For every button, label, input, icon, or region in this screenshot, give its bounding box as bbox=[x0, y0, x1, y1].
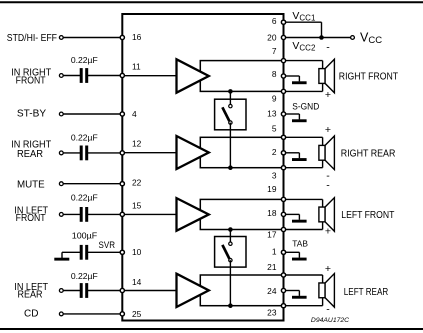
pin 14 bbox=[120, 288, 124, 292]
switch SW2 top contact bbox=[229, 242, 232, 245]
svg-text:REAR: REAR bbox=[17, 290, 42, 301]
speaker LEFT REAR polarity - bottom bbox=[326, 304, 330, 316]
wire PW1 to switch SW1 bbox=[229, 91, 231, 106]
svg-text:+: + bbox=[325, 124, 331, 136]
pin 16 bbox=[120, 35, 124, 39]
border frame top line bbox=[0, 1, 423, 3]
speaker LEFT FRONT bbox=[319, 198, 335, 232]
op-amp A1 triangle bbox=[177, 59, 209, 92]
node VCC junction dot bbox=[319, 35, 324, 40]
wire IN LEFT REAR terminal to C4 bbox=[61, 290, 81, 292]
ground at pin 24 bbox=[284, 291, 307, 299]
pin 14 number bbox=[132, 277, 142, 287]
wire ground to C5 bbox=[62, 251, 81, 253]
speaker RIGHT FRONT bbox=[319, 59, 335, 93]
pin 10 bbox=[120, 250, 124, 254]
svg-text:+: + bbox=[325, 263, 331, 275]
speaker LEFT REAR bbox=[319, 274, 335, 308]
terminal IN LEFT FRONT bbox=[59, 213, 63, 217]
speaker RIGHT REAR bbox=[319, 136, 335, 170]
svg-text:+: + bbox=[325, 89, 331, 101]
pin 8 number bbox=[272, 69, 277, 79]
pin 7 number bbox=[272, 46, 277, 56]
label VCC2 bbox=[292, 40, 316, 53]
switch SW2 lever bbox=[222, 245, 229, 259]
power stage box PW4 bbox=[200, 275, 283, 306]
pin 20 number bbox=[267, 32, 277, 42]
node junction dot on PW1 output bbox=[228, 89, 233, 94]
capacitor C2 0.22uF plates bbox=[80, 146, 89, 161]
pin 25 bbox=[120, 312, 124, 316]
wire pin 20 VCC2 to VCC terminal bbox=[284, 37, 353, 39]
speaker RIGHT FRONT polarity + bottom bbox=[325, 89, 331, 101]
label IN LEFT REAR bbox=[14, 282, 48, 301]
svg-text:0.22µF: 0.22µF bbox=[71, 193, 98, 203]
switch SW1 bottom contact bbox=[229, 121, 232, 124]
pin 6 bbox=[281, 20, 285, 24]
svg-text:0.22µF: 0.22µF bbox=[71, 133, 98, 143]
pin 1 bbox=[281, 250, 285, 254]
ground at pin 2 bbox=[284, 153, 307, 161]
border frame bottom line bbox=[0, 328, 423, 330]
speaker RIGHT REAR polarity + top bbox=[325, 124, 331, 136]
node junction dot on PW4 output bbox=[228, 303, 233, 308]
pin 16 number bbox=[132, 32, 142, 42]
svg-text:8: 8 bbox=[272, 69, 277, 79]
svg-text:14: 14 bbox=[132, 277, 142, 287]
svg-text:ST-BY: ST-BY bbox=[17, 108, 47, 119]
pin 24 number bbox=[267, 286, 277, 296]
label VCC1 bbox=[292, 10, 316, 23]
capacitor C3 0.22uF plates bbox=[80, 207, 89, 222]
pin 17 bbox=[281, 227, 285, 231]
label IN LEFT FRONT bbox=[14, 205, 48, 224]
pin 19 bbox=[281, 197, 285, 201]
pin 24 bbox=[281, 288, 285, 292]
pin 9 number bbox=[272, 93, 277, 103]
power stage box PW2 bbox=[200, 137, 283, 167]
wire C2 to pin 12 bbox=[86, 152, 122, 154]
pin 19 number bbox=[267, 184, 277, 194]
wire pin 12 to op-amp A2 input bbox=[122, 152, 176, 154]
svg-text:18: 18 bbox=[267, 208, 277, 218]
svg-text:23: 23 bbox=[267, 308, 277, 318]
pin 18 bbox=[281, 212, 285, 216]
wire C4 to pin 14 bbox=[86, 290, 122, 292]
svg-text:3: 3 bbox=[272, 171, 277, 181]
node junction dot on PW3 output bbox=[228, 227, 233, 232]
svg-text:17: 17 bbox=[267, 229, 277, 239]
switch SW2 bottom contact bbox=[229, 259, 232, 262]
svg-text:REAR: REAR bbox=[17, 149, 43, 160]
pin 9 bbox=[281, 89, 285, 93]
pin 21 bbox=[281, 273, 285, 277]
power stage box PW3 bbox=[200, 199, 283, 229]
svg-text:10: 10 bbox=[132, 247, 142, 257]
capacitor C3 value 0.22µF bbox=[71, 193, 98, 203]
wire C3 to pin 15 bbox=[86, 213, 122, 215]
label TAB bbox=[292, 238, 308, 248]
pin 4 bbox=[120, 112, 124, 116]
ground SVR bar bbox=[54, 258, 69, 261]
svg-text:16: 16 bbox=[132, 32, 142, 42]
ground at pin 8 bbox=[284, 76, 307, 84]
label speaker LEFT FRONT bbox=[341, 210, 394, 221]
wire STD/HI-EFF to pin 16 bbox=[61, 37, 122, 39]
label MUTE bbox=[17, 179, 45, 190]
svg-text:2: 2 bbox=[272, 147, 277, 157]
wire PW3 to switch SW2 bbox=[229, 230, 231, 244]
switch SW1 box bbox=[215, 99, 246, 130]
pin 3 bbox=[281, 166, 285, 170]
label ST-BY bbox=[17, 108, 47, 119]
node junction dot on PW2 output bbox=[228, 165, 233, 170]
pin 2 number bbox=[272, 147, 277, 157]
wire SW1 to PW2 output node bbox=[229, 123, 231, 168]
pin 15 bbox=[120, 212, 124, 216]
pin 1 number bbox=[272, 246, 277, 256]
svg-text:0.22µF: 0.22µF bbox=[71, 55, 98, 65]
pin 23 number bbox=[267, 308, 277, 318]
pin 13 bbox=[281, 112, 285, 116]
terminal MUTE bbox=[59, 182, 63, 186]
capacitor C2 value 0.22µF bbox=[71, 133, 98, 143]
svg-text:-: - bbox=[326, 304, 330, 316]
ground TAB at pin 1 bbox=[284, 252, 307, 260]
switch SW1 lever bbox=[222, 107, 229, 121]
power stage box PW1 bbox=[200, 61, 283, 92]
wire pin 11 to op-amp A1 input bbox=[122, 75, 176, 77]
terminal ST-BY bbox=[59, 112, 63, 116]
label speaker LEFT REAR bbox=[344, 287, 388, 298]
wire SW2 to PW4 output node bbox=[229, 260, 231, 306]
label VCC bbox=[360, 31, 382, 47]
pin 6 number bbox=[272, 16, 277, 26]
terminal IN RIGHT REAR bbox=[59, 151, 63, 155]
capacitor C5 100uF plates bbox=[80, 245, 89, 260]
wire pin to speaker LEFT FRONT top bbox=[284, 199, 323, 207]
wire pin to speaker RIGHT FRONT bottom bbox=[284, 83, 323, 91]
svg-text:22: 22 bbox=[132, 177, 142, 187]
label D94AU172C bbox=[311, 317, 349, 324]
svg-text:+: + bbox=[325, 226, 331, 238]
wire pin to speaker LEFT REAR top bbox=[284, 275, 323, 283]
svg-text:CD: CD bbox=[24, 309, 38, 320]
svg-text:4: 4 bbox=[132, 109, 137, 119]
speaker LEFT FRONT polarity + bottom bbox=[325, 226, 331, 238]
op-amp A2 triangle bbox=[177, 136, 209, 169]
IC block U1 outline bbox=[122, 14, 283, 321]
pin 12 number bbox=[132, 139, 142, 149]
svg-text:11: 11 bbox=[132, 62, 141, 72]
svg-text:0.22µF: 0.22µF bbox=[71, 271, 98, 281]
svg-text:21: 21 bbox=[267, 262, 277, 272]
svg-text:RIGHT FRONT: RIGHT FRONT bbox=[339, 72, 398, 83]
label speaker RIGHT FRONT bbox=[339, 72, 398, 83]
pin 22 bbox=[120, 182, 124, 186]
pin 8 bbox=[281, 74, 285, 78]
pin 5 bbox=[281, 135, 285, 139]
pin 10 number bbox=[132, 247, 142, 257]
svg-text:LEFT REAR: LEFT REAR bbox=[344, 287, 388, 298]
op-amp A3 triangle bbox=[177, 198, 209, 231]
svg-text:13: 13 bbox=[267, 109, 277, 119]
svg-text:SVR: SVR bbox=[99, 240, 116, 251]
svg-text:1: 1 bbox=[272, 246, 277, 256]
wire C5 to pin 10 bbox=[86, 251, 122, 253]
svg-text:25: 25 bbox=[132, 309, 142, 319]
wire pin 6 VCC1 bbox=[284, 22, 322, 37]
svg-text:100µF: 100µF bbox=[72, 231, 98, 241]
capacitor C4 value 0.22µF bbox=[71, 271, 98, 281]
label speaker RIGHT REAR bbox=[341, 149, 396, 160]
speaker LEFT FRONT polarity - top bbox=[326, 180, 330, 192]
wire ST-BY to pin 4 bbox=[61, 113, 122, 115]
svg-text:19: 19 bbox=[267, 184, 277, 194]
svg-text:6: 6 bbox=[272, 16, 277, 26]
wire pin to speaker RIGHT REAR bottom bbox=[284, 160, 323, 168]
svg-text:-: - bbox=[326, 42, 330, 54]
ground SVR drop bbox=[61, 252, 63, 258]
terminal IN LEFT REAR bbox=[59, 289, 63, 293]
capacitor C5 value 100µF bbox=[72, 231, 98, 241]
pin 5 number bbox=[272, 124, 277, 134]
wire pin to speaker RIGHT FRONT top bbox=[284, 61, 323, 69]
wire pin to speaker RIGHT REAR top bbox=[284, 137, 323, 145]
pin 11 bbox=[120, 73, 124, 77]
capacitor C1 0.22uF plates bbox=[80, 68, 89, 83]
pin 25 number bbox=[132, 309, 142, 319]
pin 7 bbox=[281, 59, 285, 63]
label STD/HI- EFF bbox=[7, 33, 57, 44]
pin 22 number bbox=[132, 177, 142, 187]
wire CD to pin 25 bbox=[61, 313, 122, 315]
svg-text:D94AU172C: D94AU172C bbox=[311, 317, 349, 324]
capacitor C4 0.22uF plates bbox=[80, 283, 89, 298]
capacitor C1 value 0.22µF bbox=[71, 55, 98, 65]
ground at pin 18 bbox=[284, 214, 307, 222]
wire pin 15 to op-amp A3 input bbox=[122, 213, 176, 215]
wire pin 14 to op-amp A4 input bbox=[122, 290, 176, 292]
ground S-GND at pin 13 bbox=[284, 114, 307, 122]
svg-text:-: - bbox=[326, 180, 330, 192]
wire MUTE to pin 22 bbox=[61, 183, 122, 185]
wire C1 to pin 11 bbox=[86, 75, 122, 77]
speaker RIGHT REAR polarity - bottom bbox=[326, 170, 330, 182]
switch SW1 top contact bbox=[229, 104, 232, 107]
pin 12 bbox=[120, 151, 124, 155]
svg-text:STD/HI- EFF: STD/HI- EFF bbox=[7, 33, 57, 44]
svg-text:20: 20 bbox=[267, 32, 277, 42]
svg-text:RIGHT REAR: RIGHT REAR bbox=[341, 149, 396, 160]
pin 23 bbox=[281, 304, 285, 308]
svg-text:5: 5 bbox=[272, 124, 277, 134]
pin 15 number bbox=[132, 200, 142, 210]
pin 2 bbox=[281, 151, 285, 155]
label SVR bbox=[99, 240, 116, 251]
label IN RIGHT FRONT bbox=[11, 67, 51, 86]
pin 21 number bbox=[267, 262, 277, 272]
terminal CD bbox=[59, 312, 63, 316]
svg-text:7: 7 bbox=[272, 46, 277, 56]
pin 13 number bbox=[267, 109, 277, 119]
svg-text:12: 12 bbox=[132, 139, 142, 149]
pin 17 number bbox=[267, 229, 277, 239]
label S-GND bbox=[292, 101, 319, 112]
pin 18 number bbox=[267, 208, 277, 218]
op-amp A4 triangle bbox=[177, 274, 209, 307]
switch SW2 box bbox=[215, 237, 246, 268]
wire IN RIGHT FRONT terminal to C1 bbox=[61, 75, 81, 77]
svg-text:FRONT: FRONT bbox=[16, 213, 46, 224]
label CD bbox=[24, 309, 38, 320]
wire IN LEFT FRONT terminal to C3 bbox=[61, 213, 81, 215]
svg-text:MUTE: MUTE bbox=[17, 179, 45, 190]
pin 3 number bbox=[272, 171, 277, 181]
svg-text:TAB: TAB bbox=[292, 238, 308, 248]
speaker LEFT REAR polarity + top bbox=[325, 263, 331, 275]
pin 4 number bbox=[132, 109, 137, 119]
wire pin to speaker LEFT FRONT bottom bbox=[284, 222, 323, 230]
wire pin to speaker LEFT REAR bottom bbox=[284, 298, 323, 306]
label IN RIGHT REAR bbox=[11, 140, 51, 160]
svg-text:24: 24 bbox=[267, 286, 277, 296]
svg-text:S-GND: S-GND bbox=[292, 101, 319, 112]
svg-text:15: 15 bbox=[132, 200, 142, 210]
wire IN RIGHT REAR terminal to C2 bbox=[61, 152, 81, 154]
terminal VCC bbox=[351, 36, 355, 40]
terminal IN RIGHT FRONT bbox=[59, 74, 63, 78]
svg-text:LEFT FRONT: LEFT FRONT bbox=[341, 210, 394, 221]
pin 20 bbox=[281, 35, 285, 39]
pin 11 number bbox=[132, 62, 141, 72]
speaker RIGHT FRONT polarity - top bbox=[326, 42, 330, 54]
svg-text:9: 9 bbox=[272, 93, 277, 103]
terminal STD/HI-EFF bbox=[59, 36, 63, 40]
svg-text:FRONT: FRONT bbox=[16, 76, 46, 87]
